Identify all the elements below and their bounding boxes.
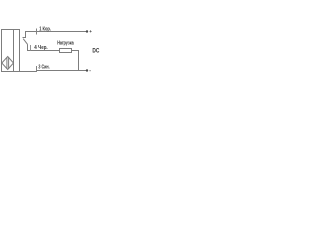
svg-text:Нагрузка: Нагрузка bbox=[57, 41, 74, 47]
svg-text:3 Син.: 3 Син. bbox=[38, 64, 50, 70]
svg-text:1 Кор.: 1 Кор. bbox=[39, 26, 51, 32]
svg-text:4 Чер.: 4 Чер. bbox=[34, 45, 48, 51]
svg-text:+: + bbox=[89, 29, 92, 34]
svg-text:-: - bbox=[89, 68, 91, 74]
svg-text:DC: DC bbox=[92, 47, 99, 54]
